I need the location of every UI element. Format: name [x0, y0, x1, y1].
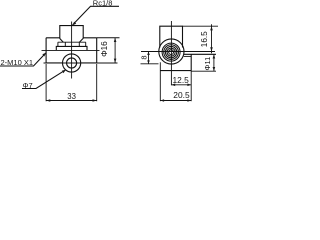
port flat top: [184, 55, 191, 57]
side view top extension (16.5): [183, 25, 219, 27]
front view body top edges: [46, 37, 97, 39]
dim 20.5 arrows: [160, 99, 191, 102]
leader Rc1/8 arrowhead: [72, 22, 76, 26]
hex top edge: [58, 41, 86, 43]
svg-text:Φ16: Φ16: [100, 41, 109, 57]
side view boss: [160, 26, 183, 47]
taper left: [60, 39, 64, 43]
dim 12.5 line: [171, 84, 191, 86]
leader Rc1/8 shelf and diagonal: [73, 6, 119, 25]
dim phi16 line: [114, 38, 116, 63]
dim 33 arrows: [46, 99, 97, 102]
taper right: [79, 39, 83, 43]
dim 33 line: [46, 100, 97, 102]
dim 16.5 arrows: [210, 26, 213, 51]
front vertical centerline: [71, 22, 73, 79]
svg-text:33: 33: [67, 92, 76, 101]
port bottom: [160, 70, 191, 72]
side horizontal axis centerline: [141, 51, 215, 53]
dim 8 extension bottom: [141, 63, 159, 65]
body axis centerline: [42, 49, 100, 51]
svg-text:12.5: 12.5: [173, 75, 190, 85]
svg-text:16.5: 16.5: [200, 31, 209, 47]
dim phi16 arrows: [114, 38, 117, 63]
svg-text:20.5: 20.5: [173, 90, 190, 100]
dim 8 arrows: [147, 52, 150, 64]
hex corner and facet verticals: [58, 42, 86, 46]
svg-text:8: 8: [140, 55, 149, 59]
phi11 bottom extension: [191, 70, 216, 72]
dim 8 line: [148, 52, 150, 64]
label 2-M10X1: [0, 53, 46, 67]
thread rings: [169, 50, 174, 55]
svg-text:Φ11: Φ11: [203, 57, 212, 71]
label phi7: [22, 70, 66, 90]
port circle outer (phi11 boss): [63, 54, 81, 72]
label Rc1/8: [72, 0, 119, 25]
dim 16.5 line: [211, 24, 213, 53]
body bottom: [46, 62, 97, 64]
dim 20.5 line: [160, 100, 191, 102]
front horizontal centerline: [44, 62, 118, 64]
front port seen from side: top line + phi11 ext: [184, 53, 217, 55]
top boss (Rc1/8 port): [60, 26, 83, 39]
side vertical centerline: [170, 21, 172, 85]
dim phi16 extension top: [97, 37, 120, 39]
port circle inner (phi7 hole): [67, 58, 77, 68]
dim 12.5 ext right: [190, 71, 192, 102]
dim 12.5 arrows: [171, 84, 191, 87]
dim phi11 line: [213, 54, 215, 71]
port face: [190, 54, 192, 70]
port left closure + 20.5 extension: [159, 62, 161, 101]
side view cylinder circle phi16: [159, 39, 184, 64]
dim phi11 arrows: [213, 54, 216, 71]
dim 33 extension lines: [46, 64, 97, 101]
flange plate: [56, 46, 87, 50]
body sides: [46, 38, 97, 63]
